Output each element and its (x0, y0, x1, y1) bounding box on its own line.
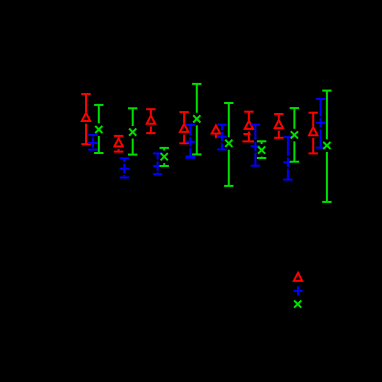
errorbar series-A red triangle point 6 (242, 112, 254, 142)
errorbar series-A red triangle point 8 (309, 113, 318, 154)
errorbar series-A red triangle point 3 (146, 109, 155, 133)
errorbar series-C green cross point 3 (160, 148, 169, 166)
errorbar series-C green cross point 7 (290, 108, 299, 162)
errorbar red extra cap cluster 6 (243, 133, 250, 135)
errorbar blue extra cap cluster 4 (185, 157, 195, 159)
errorbar series-B blue plus point 3 (153, 153, 162, 174)
errorbar series-A red triangle point 5 (212, 125, 220, 138)
errorbar series-A red triangle point 1 (81, 94, 90, 144)
errorbar series-C green cross point 4 (192, 84, 201, 154)
legend marker blue plus (293, 286, 302, 295)
errorbar series-B blue plus point 7 (283, 137, 292, 180)
errorbar series-C green cross point 5 (224, 103, 233, 186)
errorbar series-B blue plus point 8 (316, 99, 325, 148)
errorbar series-B blue plus point 1 (88, 135, 97, 150)
errorbar series-A red triangle point 4 (179, 112, 188, 143)
errorbar series-A red triangle point 7 (274, 114, 283, 138)
errorbar series-C green cross point 2 (128, 108, 137, 154)
errorbar series-B blue plus point 2 (120, 158, 129, 177)
errorbar series-C green cross point 1 (94, 105, 103, 153)
errorbar series-B blue plus point 4 (186, 125, 195, 157)
legend marker red triangle (294, 273, 302, 281)
errorbar series-C green cross point 8 (322, 91, 331, 202)
errorbar series-A red triangle point 2 (114, 136, 123, 152)
errorbar series-C green cross point 6 (257, 141, 266, 158)
errorbar series-B blue plus point 5 (217, 125, 226, 150)
legend marker green cross (294, 301, 301, 308)
errorbar series-B blue plus point 6 (251, 125, 260, 166)
